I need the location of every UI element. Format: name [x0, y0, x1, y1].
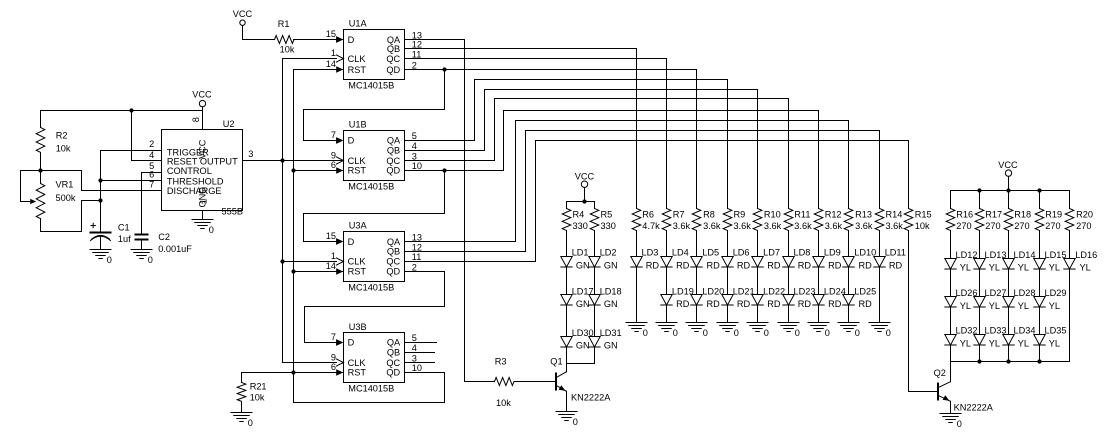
svg-text:RD: RD [737, 260, 751, 270]
svg-text:YL: YL [1049, 338, 1060, 348]
svg-text:QA: QA [387, 135, 401, 145]
svg-text:MC14015B: MC14015B [348, 80, 394, 90]
svg-text:YL: YL [989, 338, 1000, 348]
svg-text:CLK: CLK [348, 358, 367, 368]
svg-text:3.6k: 3.6k [825, 221, 843, 231]
svg-text:3.6k: 3.6k [734, 221, 752, 231]
svg-text:GN: GN [604, 341, 618, 351]
svg-text:D: D [348, 338, 355, 348]
svg-text:LD12: LD12 [956, 250, 978, 260]
svg-text:C1: C1 [118, 222, 130, 232]
svg-text:R3: R3 [495, 356, 507, 366]
svg-text:RD: RD [889, 260, 903, 270]
svg-text:YL: YL [1080, 263, 1091, 273]
svg-text:VCC: VCC [192, 89, 212, 99]
svg-text:1uf: 1uf [118, 234, 131, 244]
svg-text:LD20: LD20 [702, 286, 724, 296]
svg-text:555B: 555B [222, 206, 243, 216]
svg-text:LD24: LD24 [824, 286, 846, 296]
svg-text:RESET: RESET [167, 157, 198, 167]
svg-text:RD: RD [707, 299, 721, 309]
svg-text:QB: QB [387, 247, 400, 257]
svg-text:0: 0 [703, 328, 708, 338]
svg-text:YL: YL [1018, 263, 1029, 273]
svg-text:4.7k: 4.7k [642, 221, 660, 231]
svg-text:LD14: LD14 [1014, 250, 1036, 260]
svg-text:LD26: LD26 [956, 288, 978, 298]
svg-text:DISCHARGE: DISCHARGE [167, 186, 222, 196]
svg-text:RD: RD [798, 260, 812, 270]
svg-text:RD: RD [676, 260, 690, 270]
svg-text:500k: 500k [56, 193, 76, 203]
svg-text:3.6k: 3.6k [703, 221, 721, 231]
svg-text:U2: U2 [223, 119, 235, 129]
svg-text:0: 0 [734, 328, 739, 338]
svg-text:YL: YL [1018, 338, 1029, 348]
svg-text:0: 0 [795, 328, 800, 338]
svg-text:LD28: LD28 [1014, 288, 1036, 298]
svg-text:R9: R9 [734, 210, 746, 220]
svg-text:LD27: LD27 [985, 288, 1007, 298]
svg-text:C2: C2 [158, 232, 170, 242]
svg-text:LD9: LD9 [824, 248, 841, 258]
svg-text:0: 0 [148, 255, 153, 265]
svg-text:0: 0 [673, 328, 678, 338]
svg-text:GN: GN [604, 260, 618, 270]
svg-text:0: 0 [764, 328, 769, 338]
svg-text:330: 330 [601, 221, 616, 231]
svg-text:270: 270 [985, 221, 1000, 231]
svg-text:MC14015B: MC14015B [348, 182, 394, 192]
svg-text:RST: RST [348, 165, 367, 175]
svg-text:10k: 10k [280, 44, 295, 54]
svg-text:LD8: LD8 [794, 248, 811, 258]
svg-text:0: 0 [107, 255, 112, 265]
svg-text:LD11: LD11 [885, 248, 906, 258]
svg-text:270: 270 [1014, 221, 1029, 231]
svg-text:YL: YL [1018, 301, 1029, 311]
svg-text:LD2: LD2 [600, 248, 617, 258]
svg-text:330: 330 [573, 221, 588, 231]
svg-text:12: 12 [412, 242, 422, 252]
svg-text:2: 2 [149, 139, 154, 149]
svg-text:YL: YL [960, 338, 971, 348]
svg-text:LD3: LD3 [642, 248, 659, 258]
svg-text:LD22: LD22 [763, 286, 785, 296]
svg-text:R6: R6 [642, 210, 654, 220]
svg-text:3.6k: 3.6k [855, 221, 873, 231]
svg-text:YL: YL [1049, 301, 1060, 311]
svg-text:LD6: LD6 [733, 248, 750, 258]
svg-text:R15: R15 [915, 210, 932, 220]
svg-text:1: 1 [198, 199, 208, 204]
svg-text:LD23: LD23 [794, 286, 816, 296]
svg-text:MC14015B: MC14015B [348, 283, 394, 293]
svg-text:0.001uF: 0.001uF [158, 244, 192, 254]
svg-text:VCC: VCC [197, 139, 207, 159]
svg-text:6: 6 [331, 160, 336, 170]
svg-text:LD5: LD5 [702, 248, 719, 258]
svg-text:Q2: Q2 [934, 368, 946, 378]
svg-text:LD1: LD1 [572, 248, 589, 258]
svg-text:QB: QB [387, 44, 400, 54]
svg-text:Q1: Q1 [550, 356, 562, 366]
svg-text:9: 9 [331, 352, 336, 362]
svg-text:KN2222A: KN2222A [571, 393, 611, 403]
svg-text:270: 270 [956, 221, 971, 231]
svg-text:D: D [348, 237, 355, 247]
svg-text:MC14015B: MC14015B [348, 384, 394, 394]
svg-text:QB: QB [387, 348, 400, 358]
svg-text:10k: 10k [496, 398, 511, 408]
svg-text:3.6k: 3.6k [764, 221, 782, 231]
svg-text:R21: R21 [250, 382, 267, 392]
svg-text:LD17: LD17 [572, 286, 594, 296]
svg-text:D: D [348, 135, 355, 145]
svg-text:R8: R8 [703, 210, 715, 220]
svg-text:U3A: U3A [349, 221, 368, 231]
svg-text:R14: R14 [886, 210, 903, 220]
svg-text:QA: QA [387, 338, 401, 348]
svg-text:LD30: LD30 [572, 328, 594, 338]
svg-text:14: 14 [326, 59, 336, 69]
svg-text:10k: 10k [56, 144, 71, 154]
svg-text:11: 11 [412, 252, 422, 262]
svg-text:R11: R11 [794, 210, 810, 220]
svg-text:CLK: CLK [348, 54, 367, 64]
svg-text:CONTROL: CONTROL [167, 166, 212, 176]
svg-text:VCC: VCC [575, 171, 595, 181]
svg-text:1: 1 [331, 48, 336, 58]
svg-text:7: 7 [149, 180, 154, 190]
svg-text:RD: RD [828, 299, 842, 309]
svg-text:QA: QA [387, 237, 401, 247]
svg-text:YL: YL [960, 263, 971, 273]
svg-text:QD: QD [386, 267, 400, 277]
svg-text:R19: R19 [1045, 210, 1062, 220]
svg-text:QD: QD [386, 368, 400, 378]
svg-text:RD: RD [707, 260, 721, 270]
svg-text:5: 5 [412, 131, 417, 141]
svg-text:4: 4 [412, 343, 417, 353]
svg-text:3.6k: 3.6k [886, 221, 904, 231]
svg-text:RST: RST [348, 368, 367, 378]
svg-text:7: 7 [331, 332, 336, 342]
svg-text:LD18: LD18 [600, 286, 622, 296]
svg-text:QC: QC [386, 257, 400, 267]
svg-text:10: 10 [412, 363, 422, 373]
svg-text:R7: R7 [673, 210, 685, 220]
svg-text:YL: YL [989, 301, 1000, 311]
svg-text:3.6k: 3.6k [673, 221, 691, 231]
svg-text:U3B: U3B [349, 322, 367, 332]
svg-text:GN: GN [576, 341, 590, 351]
svg-text:0: 0 [643, 328, 648, 338]
svg-text:270: 270 [1045, 221, 1060, 231]
svg-text:10k: 10k [915, 221, 930, 231]
svg-text:0: 0 [957, 419, 962, 429]
svg-text:0: 0 [573, 417, 578, 427]
svg-text:GN: GN [576, 299, 590, 309]
svg-text:YL: YL [960, 301, 971, 311]
svg-text:RD: RD [646, 260, 660, 270]
svg-text:LD10: LD10 [854, 248, 876, 258]
svg-text:R1: R1 [278, 19, 290, 29]
svg-text:0: 0 [855, 328, 860, 338]
svg-text:2: 2 [412, 262, 417, 272]
svg-text:LD32: LD32 [956, 326, 978, 336]
svg-text:10k: 10k [250, 393, 265, 403]
svg-text:RD: RD [859, 260, 873, 270]
svg-text:LD19: LD19 [672, 286, 694, 296]
svg-text:QC: QC [386, 358, 400, 368]
svg-text:D: D [348, 35, 355, 45]
svg-text:U1B: U1B [349, 120, 367, 130]
svg-text:LD7: LD7 [763, 248, 780, 258]
svg-text:6: 6 [149, 169, 154, 179]
svg-text:QD: QD [386, 65, 400, 75]
svg-text:R16: R16 [956, 210, 973, 220]
svg-text:14: 14 [326, 261, 336, 271]
svg-text:QC: QC [386, 54, 400, 64]
svg-text:LD4: LD4 [672, 248, 689, 258]
svg-text:LD13: LD13 [985, 250, 1007, 260]
svg-text:15: 15 [326, 231, 336, 241]
svg-text:RST: RST [348, 65, 367, 75]
svg-text:0: 0 [825, 328, 830, 338]
svg-text:R17: R17 [985, 210, 1002, 220]
svg-text:LD33: LD33 [985, 326, 1007, 336]
svg-text:LD25: LD25 [854, 286, 876, 296]
svg-text:VR1: VR1 [56, 179, 74, 189]
svg-text:12: 12 [412, 40, 422, 50]
svg-text:8: 8 [191, 117, 201, 122]
svg-text:KN2222A: KN2222A [954, 402, 994, 412]
svg-text:4: 4 [149, 150, 154, 160]
svg-text:R13: R13 [855, 210, 872, 220]
svg-text:3: 3 [248, 149, 253, 159]
svg-text:R2: R2 [56, 131, 68, 141]
svg-text:15: 15 [326, 29, 336, 39]
svg-text:RD: RD [767, 299, 781, 309]
svg-text:RST: RST [348, 267, 367, 277]
svg-text:GN: GN [576, 260, 590, 270]
svg-text:0: 0 [209, 225, 214, 235]
svg-text:0: 0 [886, 328, 891, 338]
svg-text:RD: RD [767, 260, 781, 270]
svg-text:RD: RD [798, 299, 812, 309]
svg-text:RD: RD [859, 299, 873, 309]
svg-text:3: 3 [412, 354, 417, 364]
svg-text:VCC: VCC [233, 9, 253, 19]
svg-text:4: 4 [412, 141, 417, 151]
svg-text:LD16: LD16 [1075, 250, 1097, 260]
svg-text:2: 2 [412, 61, 417, 71]
svg-text:YL: YL [1049, 263, 1060, 273]
svg-text:1: 1 [331, 251, 336, 261]
svg-text:CLK: CLK [348, 257, 367, 267]
svg-text:LD34: LD34 [1014, 326, 1036, 336]
svg-text:LD31: LD31 [600, 328, 622, 338]
svg-text:R20: R20 [1076, 210, 1093, 220]
svg-text:YL: YL [989, 263, 1000, 273]
svg-text:13: 13 [412, 233, 422, 243]
svg-text:0: 0 [248, 418, 253, 428]
svg-text:3.6k: 3.6k [794, 221, 812, 231]
svg-text:R5: R5 [601, 210, 613, 220]
svg-text:THRESHOLD: THRESHOLD [167, 176, 224, 186]
svg-text:RD: RD [828, 260, 842, 270]
svg-text:LD35: LD35 [1045, 326, 1067, 336]
svg-text:RD: RD [676, 299, 690, 309]
svg-text:LD21: LD21 [733, 286, 755, 296]
svg-text:VCC: VCC [998, 160, 1018, 170]
svg-text:R10: R10 [764, 210, 781, 220]
svg-text:QB: QB [387, 146, 400, 156]
svg-text:R12: R12 [825, 210, 842, 220]
svg-text:6: 6 [331, 362, 336, 372]
svg-text:11: 11 [412, 50, 422, 60]
svg-text:RD: RD [737, 299, 751, 309]
svg-text:LD15: LD15 [1045, 250, 1067, 260]
svg-text:LD29: LD29 [1045, 288, 1067, 298]
svg-text:QD: QD [386, 165, 400, 175]
svg-text:7: 7 [331, 130, 336, 140]
svg-text:R4: R4 [573, 210, 585, 220]
svg-text:U1A: U1A [349, 19, 368, 29]
svg-text:10: 10 [412, 161, 422, 171]
svg-text:GN: GN [604, 299, 618, 309]
svg-text:5: 5 [412, 333, 417, 343]
svg-text:270: 270 [1076, 221, 1091, 231]
svg-text:R18: R18 [1014, 210, 1031, 220]
